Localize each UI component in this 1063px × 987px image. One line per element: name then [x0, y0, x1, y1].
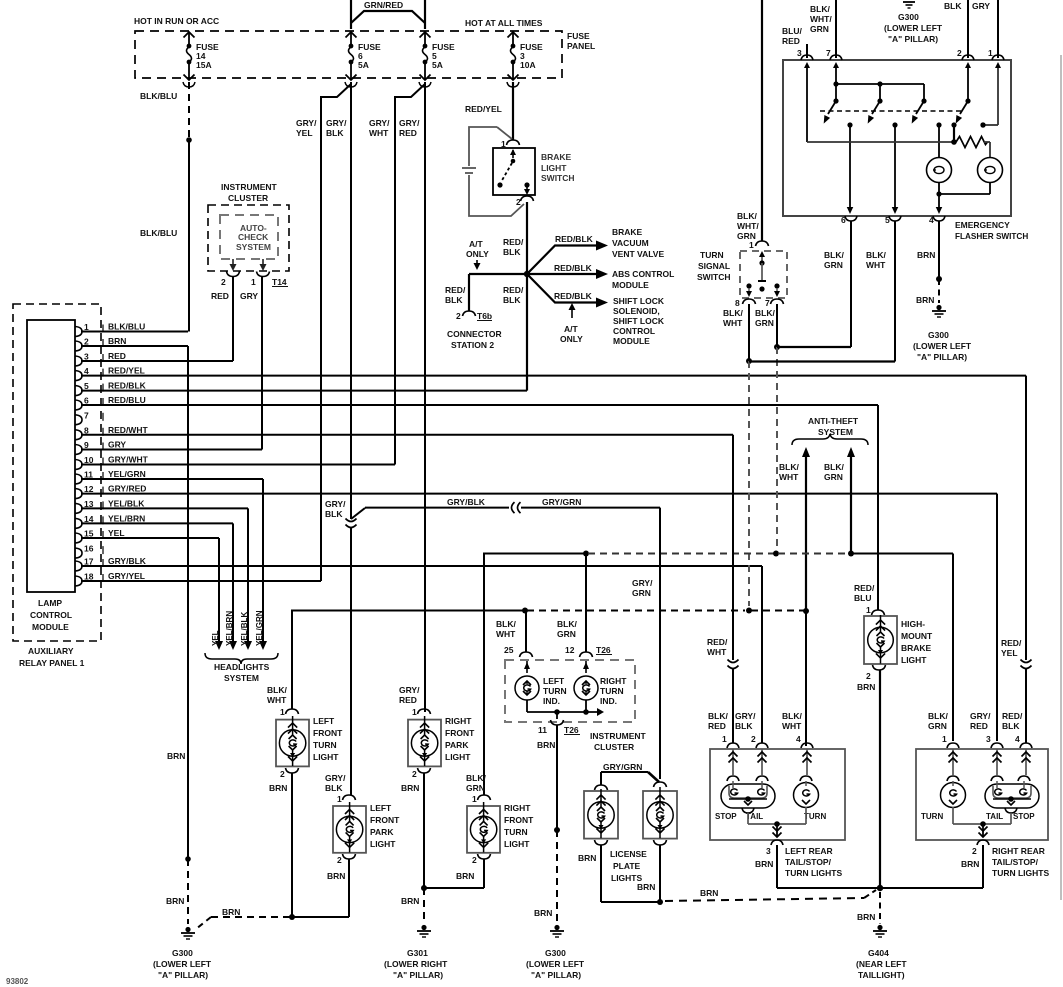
- svg-text:FRONT: FRONT: [370, 815, 400, 825]
- svg-text:RIGHT: RIGHT: [600, 676, 627, 686]
- svg-text:GRN: GRN: [466, 783, 485, 793]
- svg-text:RED/: RED/: [503, 285, 524, 295]
- label EMERGENCY FLASHER SWITCH: [955, 220, 1028, 241]
- svg-text:TURN LIGHTS: TURN LIGHTS: [785, 868, 842, 878]
- label LICENSE PLATE LIGHTS: [610, 849, 647, 883]
- right rear taillight box: [916, 749, 1048, 840]
- svg-text:1: 1: [337, 794, 342, 804]
- svg-text:HOT AT ALL TIMES: HOT AT ALL TIMES: [465, 18, 543, 28]
- svg-text:BRN: BRN: [961, 859, 979, 869]
- svg-text:2: 2: [957, 48, 962, 58]
- svg-text:BLK: BLK: [503, 247, 521, 257]
- svg-text:12: 12: [565, 645, 575, 655]
- wire GRY/YEL from fuse 6 to module pin 18: [296, 84, 351, 581]
- brake light switch contacts: [497, 149, 530, 195]
- wire GRY from T14 pin 1 to module pin 9: [240, 277, 262, 450]
- svg-text:YEL/BRN: YEL/BRN: [108, 513, 145, 523]
- flasher pins 6 5 4 bottom: [841, 215, 945, 225]
- svg-text:BLK/: BLK/: [779, 462, 799, 472]
- svg-text:GRN: GRN: [928, 721, 947, 731]
- module pin 12 wire GRY/RED: [75, 484, 997, 499]
- flasher lever arrowheads: [824, 115, 962, 124]
- wire BLK/WHT flasher pin 5 down: [866, 221, 895, 362]
- svg-text:ANTI-THEFT: ANTI-THEFT: [808, 416, 859, 426]
- turn indicator common return: [527, 700, 604, 719]
- svg-text:BRN: BRN: [755, 859, 773, 869]
- flasher internal from pin 1: [980, 62, 1001, 128]
- fuse F3 10A: [507, 32, 543, 87]
- svg-text:VACUUM: VACUUM: [612, 238, 649, 248]
- svg-text:BRAKE: BRAKE: [612, 227, 643, 237]
- flasher wire to pin 6: [847, 125, 854, 214]
- ground G300 lower left A pillar (module BRN): [153, 927, 212, 980]
- svg-text:STOP: STOP: [1013, 812, 1035, 821]
- svg-text:RED/WHT: RED/WHT: [108, 425, 148, 435]
- svg-text:TURN LIGHTS: TURN LIGHTS: [992, 868, 1049, 878]
- wire BRN license plate lights to junction: [601, 845, 663, 905]
- svg-text:RED/BLU: RED/BLU: [108, 395, 146, 405]
- svg-text:LIGHT: LIGHT: [313, 752, 339, 762]
- module pin 4 wire RED/YEL: [75, 366, 1026, 381]
- svg-text:AUXILIARY: AUXILIARY: [28, 646, 74, 656]
- wire BRN cluster pin 11 to ground G300: [534, 725, 560, 924]
- ground G300 symbol top center: [884, 2, 943, 44]
- svg-text:MOUNT: MOUNT: [901, 631, 933, 641]
- wire BRN high-mount to G404 junction: [877, 670, 883, 891]
- svg-text:YEL: YEL: [108, 528, 125, 538]
- svg-text:SOLENOID,: SOLENOID,: [613, 306, 660, 316]
- svg-text:WHT: WHT: [707, 647, 727, 657]
- label BRAKE VACUUM VENT VALVE: [612, 227, 664, 259]
- svg-text:SHIFT LOCK: SHIFT LOCK: [613, 316, 665, 326]
- turn signal switch box: [740, 251, 787, 298]
- label LEFT REAR TAIL/STOP/TURN LIGHTS: [785, 846, 842, 878]
- svg-text:BLK/: BLK/: [782, 711, 802, 721]
- right rear pin 4 RED/BLK: [1002, 711, 1032, 775]
- svg-text:BRN: BRN: [401, 783, 419, 793]
- svg-text:BLK/: BLK/: [755, 308, 775, 318]
- svg-text:BLK/: BLK/: [267, 685, 287, 695]
- svg-text:RED/: RED/: [1001, 638, 1022, 648]
- svg-text:(LOWER LEFT: (LOWER LEFT: [153, 959, 212, 969]
- left rear pin 4 BLK/WHT: [782, 711, 813, 775]
- svg-text:FRONT: FRONT: [313, 728, 343, 738]
- turn signal switch pins 8 and 7: [735, 298, 784, 308]
- svg-text:1: 1: [280, 707, 285, 717]
- svg-text:GRY/: GRY/: [399, 118, 420, 128]
- svg-text:BRN: BRN: [917, 250, 935, 260]
- svg-text:GRY/: GRY/: [735, 711, 756, 721]
- svg-text:2: 2: [516, 197, 521, 207]
- svg-text:(LOWER LEFT: (LOWER LEFT: [884, 23, 943, 33]
- svg-text:TURN: TURN: [600, 686, 624, 696]
- svg-text:1: 1: [866, 605, 871, 615]
- wire GRN/RED bridge above fuses 6 and 5: [351, 0, 425, 29]
- label TURN SIGNAL SWITCH: [697, 250, 731, 282]
- flasher pin 7 top: [810, 0, 842, 60]
- svg-text:2: 2: [221, 277, 226, 287]
- svg-text:2: 2: [280, 769, 285, 779]
- svg-text:WHT/: WHT/: [810, 14, 832, 24]
- svg-text:GRN: GRN: [824, 260, 843, 270]
- svg-text:LEFT: LEFT: [370, 803, 392, 813]
- flasher contact dots: [847, 122, 985, 127]
- flasher indicator lamp right: [978, 158, 1003, 183]
- svg-text:EMERGENCY: EMERGENCY: [955, 220, 1010, 230]
- svg-text:BRN: BRN: [222, 907, 240, 917]
- svg-text:T14: T14: [272, 277, 287, 287]
- label A/T ONLY with arrow (left branch): [466, 239, 489, 270]
- svg-text:GRY/: GRY/: [325, 773, 346, 783]
- svg-text:2: 2: [412, 769, 417, 779]
- svg-text:BRN: BRN: [857, 912, 875, 922]
- svg-text:BRN: BRN: [108, 336, 126, 346]
- svg-text:BLK: BLK: [325, 509, 343, 519]
- svg-text:1: 1: [472, 794, 477, 804]
- svg-text:"A" PILLAR): "A" PILLAR): [158, 970, 208, 980]
- svg-text:TAIL/STOP/: TAIL/STOP/: [785, 857, 832, 867]
- svg-text:LAMP: LAMP: [38, 598, 62, 608]
- svg-text:GRY/: GRY/: [632, 578, 653, 588]
- svg-text:SYSTEM: SYSTEM: [236, 242, 271, 252]
- flasher switch dashed gang line: [820, 110, 962, 112]
- svg-text:BRN: BRN: [700, 888, 718, 898]
- svg-text:LIGHT: LIGHT: [370, 839, 396, 849]
- wire RED/BLK arrow to ABS control module: [527, 263, 608, 279]
- svg-text:BLK/: BLK/: [810, 4, 830, 14]
- right rear pin 3 GRY/RED: [970, 711, 1003, 775]
- svg-text:FUSE: FUSE: [567, 31, 590, 41]
- svg-text:BLK/: BLK/: [928, 711, 948, 721]
- svg-text:CONTROL: CONTROL: [30, 610, 72, 620]
- svg-text:RIGHT: RIGHT: [504, 803, 531, 813]
- svg-text:MODULE: MODULE: [613, 336, 650, 346]
- svg-text:GRY/GRN: GRY/GRN: [603, 762, 642, 772]
- right turn indicator lamp: [574, 661, 627, 706]
- auxiliary relay panel 1 dashed box: [13, 304, 101, 668]
- svg-text:PLATE: PLATE: [613, 861, 641, 871]
- wire GRY/BLK to GRY/GRN inline connector net: [365, 497, 660, 779]
- svg-text:CLUSTER: CLUSTER: [594, 742, 634, 752]
- wire GRY/BLK pin 17 to left rear: [761, 566, 763, 743]
- left rear lamp returns to pin 3: [742, 807, 806, 837]
- svg-text:GRY/GRN: GRY/GRN: [542, 497, 581, 507]
- module pin 15 wire YEL: [75, 528, 219, 543]
- svg-text:BLK/: BLK/: [723, 308, 743, 318]
- wire BLK/GRN to anti-theft system: [824, 447, 855, 554]
- label RIGHT REAR TAIL/STOP/TURN LIGHTS: [992, 846, 1049, 878]
- wire RED/YEL with inline connector becomes RED/BLK: [1001, 376, 1032, 743]
- wire BRN dashed to ground G404: [857, 892, 880, 924]
- svg-text:HOT IN RUN OR ACC: HOT IN RUN OR ACC: [134, 16, 219, 26]
- svg-text:LICENSE: LICENSE: [610, 849, 647, 859]
- wire YEL pin 15 to headlights: [211, 538, 223, 650]
- module pin 7: [75, 410, 103, 425]
- svg-text:GRY: GRY: [972, 1, 990, 11]
- svg-text:BLK: BLK: [735, 721, 753, 731]
- lamp control module box: [27, 320, 75, 632]
- wire BLK/GRN turn signal to flasher pin 6: [777, 346, 851, 348]
- label INSTRUMENT CLUSTER: [590, 731, 647, 752]
- flasher indicator lamp left: [927, 158, 952, 183]
- right rear tail/stop dual filament lamp: [985, 776, 1039, 821]
- label SHIFT LOCK SOLENOID SHIFT LOCK CONTROL MODULE: [613, 296, 665, 346]
- svg-text:BRN: BRN: [456, 871, 474, 881]
- svg-text:GRY/YEL: GRY/YEL: [108, 571, 145, 581]
- svg-text:HIGH-: HIGH-: [901, 619, 925, 629]
- svg-text:G301: G301: [407, 948, 428, 958]
- svg-text:1: 1: [988, 48, 993, 58]
- module pin 1 wire BLK/BLU: [75, 322, 188, 337]
- wire BRN flasher pin 4 to ground: [916, 221, 942, 305]
- svg-text:TURN: TURN: [700, 250, 724, 260]
- svg-text:GRN/RED: GRN/RED: [364, 0, 403, 10]
- wire BLK/GRN from turn signal pin 7: [755, 304, 780, 549]
- svg-text:STOP: STOP: [715, 812, 737, 821]
- module pin 14 wire YEL/BRN: [75, 513, 233, 528]
- svg-text:BLK/: BLK/: [824, 462, 844, 472]
- wire BLK/WHT turn signal to flasher pin 5: [749, 360, 895, 362]
- svg-text:RED: RED: [211, 291, 229, 301]
- ground G301 lower right A pillar: [384, 925, 448, 980]
- svg-text:CONTROL: CONTROL: [613, 326, 655, 336]
- svg-text:SYSTEM: SYSTEM: [818, 427, 853, 437]
- svg-text:WHT: WHT: [267, 695, 287, 705]
- right rear pin 2 BRN: [961, 840, 989, 869]
- wire BLK/BLU from fuse 14 to module pin 1: [140, 82, 192, 332]
- svg-text:16: 16: [84, 544, 94, 554]
- svg-text:RED/: RED/: [503, 237, 524, 247]
- svg-text:BLK/: BLK/: [866, 250, 886, 260]
- wire BRN right front park light to ground: [421, 773, 427, 891]
- svg-text:BRN: BRN: [166, 896, 184, 906]
- svg-text:BLK/: BLK/: [557, 619, 577, 629]
- svg-text:BRN: BRN: [327, 871, 345, 881]
- svg-text:RED: RED: [708, 721, 726, 731]
- module pin 17 wire GRY/BLK: [75, 556, 762, 571]
- brake light switch pin 1: [501, 139, 520, 149]
- svg-text:GRY: GRY: [108, 440, 126, 450]
- module pin 16: [75, 544, 103, 559]
- svg-text:2: 2: [866, 671, 871, 681]
- svg-text:INSTRUMENT: INSTRUMENT: [221, 182, 278, 192]
- instrument cluster T26 pin 12: [557, 554, 612, 658]
- module pin 18 wire GRY/YEL: [75, 571, 321, 586]
- svg-text:WHT: WHT: [866, 260, 886, 270]
- svg-text:G300: G300: [172, 948, 193, 958]
- ground G404 near left taillight: [856, 925, 907, 980]
- svg-text:T6b: T6b: [477, 311, 492, 321]
- svg-text:3: 3: [986, 734, 991, 744]
- svg-text:IND.: IND.: [543, 696, 560, 706]
- svg-text:BRN: BRN: [401, 896, 419, 906]
- svg-text:T26: T26: [564, 725, 579, 735]
- wire BRN left front turn light to ground: [289, 773, 295, 920]
- svg-text:T26: T26: [596, 645, 611, 655]
- wire GRY/WHT from fuse 5 to module pin 10: [369, 84, 425, 465]
- svg-text:SHIFT LOCK: SHIFT LOCK: [613, 296, 665, 306]
- svg-text:GRY/: GRY/: [970, 711, 991, 721]
- module pin 8 wire RED/WHT: [75, 425, 733, 440]
- svg-text:LEFT: LEFT: [313, 716, 335, 726]
- wire BRN left rear to G404: [777, 845, 880, 888]
- svg-text:VENT VALVE: VENT VALVE: [612, 249, 664, 259]
- svg-text:1: 1: [942, 734, 947, 744]
- svg-text:2: 2: [751, 734, 756, 744]
- svg-text:G300: G300: [928, 330, 949, 340]
- svg-text:CHECK: CHECK: [238, 232, 269, 242]
- left rear pin 2 GRY/BLK: [735, 711, 768, 775]
- right rear turn lamp: [921, 776, 966, 821]
- svg-text:RIGHT: RIGHT: [445, 716, 472, 726]
- svg-text:CONNECTOR: CONNECTOR: [447, 329, 502, 339]
- svg-text:2: 2: [972, 846, 977, 856]
- svg-text:3: 3: [797, 48, 802, 58]
- wire GRY/BLK inline connector below fuse branch: [325, 499, 365, 795]
- svg-text:TAIL: TAIL: [986, 812, 1003, 821]
- svg-text:TAILLIGHT): TAILLIGHT): [858, 970, 905, 980]
- svg-text:10A: 10A: [520, 60, 536, 70]
- connector T14 pins 2 and 1: [221, 272, 288, 288]
- svg-text:BLK/: BLK/: [708, 711, 728, 721]
- svg-text:4: 4: [929, 215, 934, 225]
- flasher wire to lamps and pin 4: [936, 125, 990, 214]
- wire RED/BLK to connector station 2: [445, 274, 527, 311]
- flasher internal from pin 2: [965, 62, 971, 101]
- connector T6b pin 2 / CONNECTOR STATION 2: [447, 311, 502, 350]
- wire BLK/GRN flasher pin 6 down: [824, 221, 851, 347]
- svg-text:IND.: IND.: [600, 696, 617, 706]
- left turn indicator lamp: [515, 661, 567, 706]
- module pin 9 wire GRY: [75, 440, 262, 455]
- svg-text:"A" PILLAR): "A" PILLAR): [531, 970, 581, 980]
- svg-text:SWITCH: SWITCH: [697, 272, 731, 282]
- wire YEL/BLK pin 13 to headlights: [240, 508, 252, 650]
- svg-text:LIGHTS: LIGHTS: [611, 873, 642, 883]
- svg-text:1: 1: [722, 734, 727, 744]
- brake light switch pin 2: [516, 196, 534, 207]
- svg-text:WHT: WHT: [723, 318, 743, 328]
- svg-text:11: 11: [538, 725, 547, 735]
- svg-text:WHT: WHT: [782, 721, 802, 731]
- wire RED/BLK junction down to module pin 5 row: [503, 274, 527, 391]
- svg-text:GRY: GRY: [240, 291, 258, 301]
- svg-text:YEL: YEL: [211, 630, 220, 646]
- right rear lamp returns to pin 2: [953, 807, 1017, 837]
- wire RED from T14 pin 2 to module pin 3: [211, 277, 233, 361]
- svg-text:2: 2: [472, 855, 477, 865]
- svg-text:BLK/: BLK/: [466, 773, 486, 783]
- svg-text:TURN: TURN: [543, 686, 567, 696]
- svg-text:SYSTEM: SYSTEM: [224, 673, 259, 683]
- license plate light right: [637, 782, 677, 892]
- flasher internal switch pole 1: [804, 62, 810, 142]
- svg-text:RED: RED: [782, 36, 800, 46]
- ground G300 center: [526, 925, 585, 980]
- label BRAKE LIGHT SWITCH: [541, 152, 575, 183]
- svg-text:BLK: BLK: [445, 295, 463, 305]
- svg-text:GRN: GRN: [824, 472, 843, 482]
- left front turn light: [267, 610, 343, 794]
- svg-text:BLU/: BLU/: [782, 26, 802, 36]
- wire BRN right front turn light to junction: [424, 859, 484, 888]
- svg-text:RIGHT REAR: RIGHT REAR: [992, 846, 1045, 856]
- svg-text:RED/BLK: RED/BLK: [555, 234, 594, 244]
- svg-text:2: 2: [337, 855, 342, 865]
- svg-text:PARK: PARK: [445, 740, 469, 750]
- svg-text:BLK: BLK: [325, 783, 343, 793]
- wire RED/BLK arrow to shift lock solenoid: [527, 274, 608, 308]
- wire YEL/BRN pin 14 to headlights: [225, 523, 237, 650]
- svg-text:RED: RED: [399, 695, 417, 705]
- svg-text:G300: G300: [898, 12, 919, 22]
- svg-text:(LOWER LEFT: (LOWER LEFT: [526, 959, 585, 969]
- svg-text:BLK/BLU: BLK/BLU: [140, 91, 177, 101]
- svg-text:1: 1: [749, 240, 754, 250]
- wire GRY/BLK from fuse 6 down to connector: [326, 82, 351, 519]
- svg-text:A/T: A/T: [469, 239, 484, 249]
- wire BRN dashed to ground G300 left: [196, 907, 290, 929]
- fuse panel box: [135, 31, 595, 78]
- svg-text:STATION 2: STATION 2: [451, 340, 494, 350]
- wire BLK/GRN dashed net to rear: [484, 551, 953, 742]
- flasher pin 2 top: [944, 0, 974, 60]
- svg-text:BRN: BRN: [534, 908, 552, 918]
- module pin 6 wire RED/BLU: [75, 395, 878, 410]
- svg-text:CLUSTER: CLUSTER: [228, 193, 268, 203]
- label ABS CONTROL MODULE: [612, 269, 674, 290]
- svg-text:BRN: BRN: [637, 882, 655, 892]
- svg-text:YEL: YEL: [1001, 648, 1018, 658]
- svg-text:GRN: GRN: [755, 318, 774, 328]
- flasher internal switch pole 2 from pin 7: [833, 62, 924, 101]
- svg-text:RELAY PANEL 1: RELAY PANEL 1: [19, 658, 85, 668]
- flasher bus wire and resistor: [807, 125, 990, 157]
- svg-text:BLU: BLU: [854, 593, 871, 603]
- svg-text:GRN: GRN: [557, 629, 576, 639]
- wire BLK/WHT dashed net to rear: [292, 608, 809, 747]
- label A/T ONLY with arrow (shift lock): [560, 303, 583, 344]
- flasher wire to pin 5: [892, 125, 899, 214]
- svg-text:BRAKE: BRAKE: [541, 152, 572, 162]
- svg-text:(LOWER LEFT: (LOWER LEFT: [913, 341, 972, 351]
- svg-text:YEL: YEL: [296, 128, 313, 138]
- svg-text:GRY/WHT: GRY/WHT: [108, 455, 149, 465]
- svg-text:RED/: RED/: [445, 285, 466, 295]
- svg-text:ABS CONTROL: ABS CONTROL: [612, 269, 674, 279]
- high-mount brake light: [854, 405, 933, 692]
- svg-text:3: 3: [766, 846, 771, 856]
- wire BLK/WHT from turn signal pin 8: [723, 304, 752, 606]
- wire BRN dashed to ground G301: [401, 888, 424, 924]
- svg-text:1: 1: [251, 277, 256, 287]
- node RED/BLK junction: [524, 271, 530, 277]
- fuse F14 15A: [183, 32, 219, 87]
- left rear stop/tail dual filament lamp: [715, 776, 775, 821]
- svg-text:RED/BLK: RED/BLK: [108, 381, 147, 391]
- license plate light left: [578, 762, 659, 863]
- wire BRN module pin 2 to ground G300: [166, 346, 191, 924]
- right front park light: [399, 685, 475, 793]
- svg-text:8: 8: [735, 298, 740, 308]
- svg-text:BRN: BRN: [167, 751, 185, 761]
- svg-text:"A" PILLAR): "A" PILLAR): [917, 352, 967, 362]
- svg-text:BRN: BRN: [857, 682, 875, 692]
- flasher pin 3 top: [782, 26, 813, 60]
- svg-text:4: 4: [1015, 734, 1020, 744]
- svg-text:FLASHER SWITCH: FLASHER SWITCH: [955, 232, 1028, 241]
- svg-text:BLK/: BLK/: [824, 250, 844, 260]
